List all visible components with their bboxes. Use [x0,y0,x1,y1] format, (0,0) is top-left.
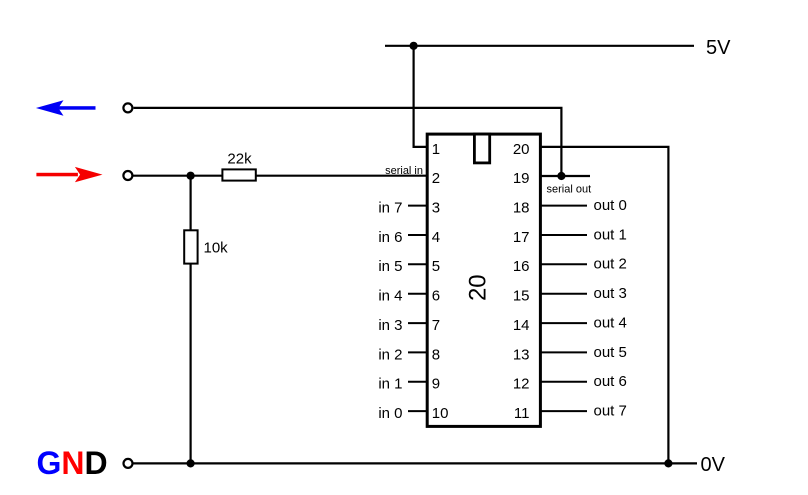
svg-text:out 0: out 0 [594,197,627,214]
resistor 10k [184,230,197,263]
wire pin 14 stub right [540,322,587,324]
wire 10k resistor down to 0V rail [190,264,192,464]
svg-text:out 2: out 2 [594,256,627,273]
svg-text:GND: GND [37,445,108,481]
svg-text:7: 7 [432,317,440,334]
svg-text:out 1: out 1 [594,226,627,243]
svg-text:in 0: in 0 [378,405,402,422]
junction dot 10k to 0V rail [187,459,195,467]
svg-text:10k: 10k [204,239,229,256]
svg-text:serial in: serial in [385,165,423,177]
svg-text:4: 4 [432,229,440,246]
svg-text:in 3: in 3 [378,317,402,334]
svg-text:2: 2 [432,170,440,187]
svg-text:3: 3 [432,200,440,217]
svg-text:1: 1 [432,141,440,158]
svg-text:20: 20 [465,274,492,301]
arrow serial-out direction (blue, pointing left) [36,100,96,115]
wire 5V rail down to pin 1 [414,46,428,147]
svg-text:out 7: out 7 [594,403,627,420]
wire serial-out net (terminal to pin 19) [134,108,562,176]
wire pin 19 stub [540,175,590,177]
wire pin 13 stub right [540,351,587,353]
wire pin 17 stub right [540,234,587,236]
wire pin 7 stub left [408,322,427,324]
wire pin 8 stub left [408,351,427,353]
svg-text:0V: 0V [701,454,726,476]
IC U1 body (20-pin) [427,134,540,426]
svg-text:14: 14 [513,317,530,334]
svg-text:in 1: in 1 [378,376,402,393]
svg-text:in 6: in 6 [378,229,402,246]
svg-text:in 4: in 4 [378,288,402,305]
svg-text:12: 12 [513,376,530,393]
wire pin 11 stub right [540,410,587,412]
wire pin 10 stub left [408,410,427,412]
svg-text:22k: 22k [227,151,252,168]
svg-text:6: 6 [432,288,440,305]
wire 22k resistor to pin 2 (serial in) [256,175,427,177]
svg-text:19: 19 [513,170,530,187]
wire pin 5 stub left [408,263,427,265]
svg-text:8: 8 [432,346,440,363]
wire 0V ground rail [132,462,697,464]
svg-text:serial out: serial out [547,184,592,196]
arrow serial-in direction (red, pointing right) [36,167,102,182]
svg-text:5: 5 [432,258,440,275]
svg-text:13: 13 [513,346,530,363]
IC pin-1 notch [474,134,489,163]
wire pin 6 stub left [408,293,427,295]
svg-text:in 2: in 2 [378,346,402,363]
svg-text:15: 15 [513,288,530,305]
svg-text:5V: 5V [706,37,731,59]
svg-text:9: 9 [432,376,440,393]
wire pin 15 stub right [540,293,587,295]
junction dot at pin 19 / serial out [557,172,565,180]
wire pin 16 stub right [540,263,587,265]
wire pin 3 stub left [408,205,427,207]
wire pin 18 stub right [540,205,587,207]
svg-text:17: 17 [513,229,530,246]
wire 5V supply rail [385,45,694,47]
terminal circle GND [124,459,133,468]
svg-text:out 3: out 3 [594,285,627,302]
svg-text:in 7: in 7 [378,200,402,217]
junction dot on 5V rail [410,42,418,50]
svg-text:out 6: out 6 [594,373,627,390]
wire divider node down to 10k resistor [190,176,192,231]
terminal circle serial-in [123,171,132,180]
svg-text:18: 18 [513,200,530,217]
svg-text:out 5: out 5 [594,344,627,361]
svg-text:out 4: out 4 [594,315,627,332]
junction dot pin20 drop on 0V rail [664,459,672,467]
junction dot at divider node [187,172,195,180]
svg-text:11: 11 [514,405,530,422]
svg-text:20: 20 [513,141,530,158]
wire pin 20 to 0V rail (right side) [540,147,668,464]
resistor 22k [222,169,255,180]
wire pin 9 stub left [408,381,427,383]
svg-text:10: 10 [432,405,449,422]
svg-text:in 5: in 5 [378,258,402,275]
svg-text:16: 16 [513,258,530,275]
wire pin 12 stub right [540,381,587,383]
wire pin 4 stub left [408,234,427,236]
wire serial-in net (terminal to 22k resistor) [132,175,222,177]
terminal circle serial-out [123,103,132,112]
